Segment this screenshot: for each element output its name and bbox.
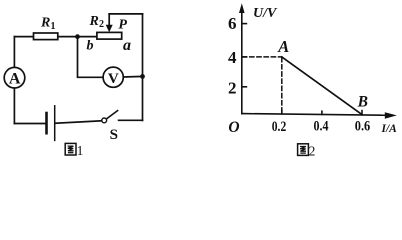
svg-text:V: V <box>108 71 119 87</box>
svg-text:P: P <box>118 18 127 33</box>
svg-text:2: 2 <box>228 79 237 98</box>
svg-text:2: 2 <box>309 144 316 158</box>
svg-text:0.2: 0.2 <box>272 119 287 135</box>
svg-text:b: b <box>87 39 94 54</box>
svg-text:A: A <box>277 37 289 56</box>
svg-text:1: 1 <box>77 143 84 158</box>
svg-text:A: A <box>9 71 21 88</box>
svg-text:B: B <box>357 94 368 111</box>
svg-text:R: R <box>40 16 50 31</box>
svg-text:I/A: I/A <box>381 123 398 135</box>
svg-text:R: R <box>89 14 99 29</box>
svg-text:0.6: 0.6 <box>355 119 371 135</box>
svg-text:4: 4 <box>228 48 237 67</box>
svg-text:O: O <box>228 119 239 136</box>
svg-text:0.4: 0.4 <box>314 119 329 135</box>
svg-text:1: 1 <box>51 21 56 32</box>
svg-text:6: 6 <box>228 14 237 33</box>
svg-text:2: 2 <box>99 19 104 30</box>
svg-text:a: a <box>123 37 131 54</box>
svg-text:S: S <box>110 127 118 143</box>
svg-text:U/V: U/V <box>253 6 278 21</box>
